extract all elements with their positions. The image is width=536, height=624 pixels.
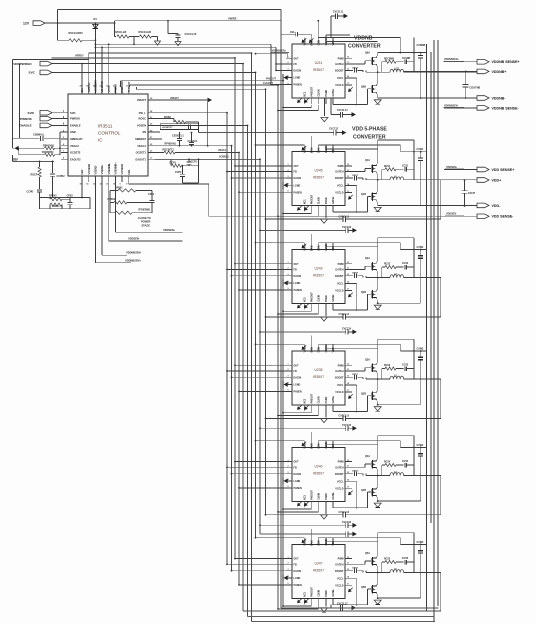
wire ground row xyxy=(377,202,379,206)
svg-text:ENABLE: ENABLE xyxy=(70,124,81,128)
pin U211 top-left arrow xyxy=(302,38,306,42)
pin U243 top CSIN xyxy=(317,243,319,250)
wire EAIN drop phase 5 xyxy=(310,529,312,538)
wire to IC VDAC pin xyxy=(60,147,68,149)
wire bus PWROKV horizontal xyxy=(89,52,252,54)
wire right return phase1 xyxy=(440,180,442,219)
svg-text:DACIN: DACIN xyxy=(294,177,302,180)
svg-text:VCCL: VCCL xyxy=(337,480,344,483)
svg-text:PWROK: PWROK xyxy=(20,117,33,121)
pin bottom FB2 xyxy=(81,176,83,182)
op-amp U1 IR3511 control IC xyxy=(68,94,148,176)
wire output to rail xyxy=(404,475,441,477)
wire pin4 feed xyxy=(326,444,378,446)
svg-text:VDDNBSEN-: VDDNBSEN- xyxy=(126,251,142,255)
pin U235 top-left arrow xyxy=(302,345,306,349)
pin bottom VOSEN2 xyxy=(88,176,90,182)
wire output line xyxy=(366,179,390,181)
wire QB drain xyxy=(377,83,379,85)
svg-text:1: 1 xyxy=(288,460,289,462)
pin U243 bottom GATEL xyxy=(332,303,334,309)
svg-text:17: 17 xyxy=(347,289,349,291)
wire EAIN drop phase 2 xyxy=(310,234,312,243)
svg-text:IR3507: IR3507 xyxy=(313,471,324,475)
svg-text:FB: FB xyxy=(294,563,297,566)
svg-text:Q5A: Q5A xyxy=(365,552,370,555)
svg-text:LGND: LGND xyxy=(294,282,301,285)
bus taps VDDNB xyxy=(256,53,288,55)
svg-text:CLKIN: CLKIN xyxy=(326,38,328,45)
wire rail VIN vertical xyxy=(437,40,439,606)
pin U247 top-left arrow xyxy=(302,539,306,543)
wire output to rail xyxy=(404,378,441,380)
connector VDD SENSE+ xyxy=(444,169,477,171)
wire SVC xyxy=(52,71,256,73)
pin top VCCLDRV xyxy=(94,87,96,94)
svg-text:CLKIN: CLKIN xyxy=(318,295,320,302)
wire ENABLE to IC pin 3 xyxy=(52,124,68,126)
pin U245 bottom-left arrow xyxy=(298,206,302,210)
wire GATEH to QA gate xyxy=(352,370,365,372)
pin U247 top CSIN xyxy=(317,538,319,545)
svg-text:U211: U211 xyxy=(315,61,323,65)
arrow U235 LGND sense xyxy=(284,382,288,387)
arrow CVCCL17 flag xyxy=(352,605,357,610)
wire pin VCCL up xyxy=(108,44,110,87)
svg-text:IR3507: IR3507 xyxy=(313,568,324,572)
svg-text:CVCC15: CVCC15 xyxy=(342,425,352,427)
pin bottom VSENNB+ xyxy=(114,176,116,182)
svg-text:PSI_L: PSI_L xyxy=(139,111,147,115)
svg-text:NC1: NC1 xyxy=(304,91,306,96)
pin U247 top CLKIN xyxy=(325,538,327,545)
wire VDDPWRGD to pin GIA xyxy=(81,64,83,87)
arrow CVCC13 supply flag xyxy=(352,228,357,233)
svg-text:VDD SENSE-: VDD SENSE- xyxy=(492,215,515,219)
svg-text:CLKIN: CLKIN xyxy=(326,345,328,352)
wire input cap drop xyxy=(413,238,415,278)
svg-text:VOSEN1: VOSEN1 xyxy=(120,163,124,174)
arrow current sense left xyxy=(15,146,19,151)
pin U245 top-left arrow xyxy=(302,146,306,150)
wire bus 44 xyxy=(95,43,271,45)
wire bus VDAC vertical xyxy=(231,146,233,571)
svg-text:CBST: CBST xyxy=(352,273,359,275)
svg-text:Q1B: Q1B xyxy=(361,193,366,196)
connector VDDNB SENSE- xyxy=(444,107,477,109)
pin U235 bottom arrow 2 xyxy=(305,405,309,409)
svg-text:IR3507: IR3507 xyxy=(313,375,324,379)
svg-text:IR3507: IR3507 xyxy=(313,176,324,180)
wire sense line to VDD SENSE- xyxy=(209,215,477,217)
svg-text:CVCCL1F: CVCCL1F xyxy=(185,32,197,36)
wire VDAC1 net xyxy=(155,145,232,147)
svg-text:GIA: GIA xyxy=(80,88,84,93)
wire top feed phase 2 xyxy=(256,242,305,244)
ground arrow below QB xyxy=(374,207,381,211)
wire VCCL right pin down xyxy=(352,282,357,284)
wire pin4 feed xyxy=(326,541,378,543)
wire 12V to boundary xyxy=(115,20,281,22)
wire output to VDD+ rail xyxy=(404,179,477,181)
svg-text:OCSET2: OCSET2 xyxy=(70,151,81,155)
pin U235 bottom PGND xyxy=(325,405,327,411)
wire ground row xyxy=(377,594,379,598)
svg-text:CCS4: CCS4 xyxy=(402,460,409,463)
pin U235 top CLKIN xyxy=(325,344,327,351)
svg-text:OUT: OUT xyxy=(294,263,300,266)
svg-text:DACIN: DACIN xyxy=(294,70,302,73)
svg-text:VDDNBSEN+: VDDNBSEN+ xyxy=(125,258,142,262)
wire phase node xyxy=(377,66,379,85)
wire VDDNB ground to connector xyxy=(377,94,379,98)
svg-text:IC: IC xyxy=(98,138,103,143)
ground arrow U247 xyxy=(321,608,328,612)
svg-text:U243: U243 xyxy=(314,266,322,270)
svg-text:CBST: CBST xyxy=(352,568,359,570)
pin bottom VOSEN1 xyxy=(121,176,123,182)
svg-text:5: 5 xyxy=(288,83,289,85)
pin U240 right-bottom arrow xyxy=(349,491,353,495)
svg-text:RPHSVN1: RPHSVN1 xyxy=(165,143,177,146)
wire GATEH to QA gate xyxy=(352,171,365,173)
wire bus VDDPWRGD vertical xyxy=(242,64,244,611)
svg-text:LGND: LGND xyxy=(294,184,301,187)
connector VDD SENSE- xyxy=(477,214,489,219)
wire VDDPWRGD xyxy=(52,63,243,65)
pin U245 bottom PHSOUT xyxy=(310,206,312,212)
op-amp U235 IR3507 phase IC xyxy=(292,351,345,405)
pin U240 bottom CLKIN xyxy=(317,501,319,507)
svg-text:2: 2 xyxy=(288,170,289,172)
wire PGND drop U245 xyxy=(325,212,327,219)
svg-text:GATEL: GATEL xyxy=(332,294,335,302)
wire drain feed mid xyxy=(318,537,400,539)
wire QB drain xyxy=(377,390,379,392)
svg-text:BOOST: BOOST xyxy=(335,376,344,379)
pin bottom VSENNB- xyxy=(108,176,110,182)
pin U240 bottom-left arrow xyxy=(298,502,302,506)
pin U247 bottom CLKIN xyxy=(317,598,319,604)
svg-text:Q3A: Q3A xyxy=(365,358,370,361)
svg-text:CVIN4: CVIN4 xyxy=(417,444,424,447)
pin U247 bottom NC1 xyxy=(303,598,305,604)
svg-text:GATEL: GATEL xyxy=(332,589,335,597)
svg-text:VSENNB-: VSENNB- xyxy=(107,163,111,175)
wire ground row xyxy=(377,94,379,98)
svg-text:VDD 5-PHASE: VDD 5-PHASE xyxy=(352,127,387,133)
svg-text:NC1: NC1 xyxy=(304,398,306,403)
pin U240 top CLKIN xyxy=(325,441,327,448)
pin U240 top-left arrow xyxy=(302,442,306,446)
svg-text:CVCCL15: CVCCL15 xyxy=(339,416,350,418)
wire IIN net xyxy=(155,131,160,133)
wire drain feed mid xyxy=(318,36,400,38)
svg-text:PHSOUT: PHSOUT xyxy=(311,587,313,597)
svg-text:RVSETPT: RVSETPT xyxy=(163,127,174,129)
wire input cap drop xyxy=(413,140,415,180)
svg-text:RVCCLDRV: RVCCLDRV xyxy=(69,31,84,35)
bus taps phase 4 xyxy=(235,461,286,463)
op-amp U245 IR3507 phase IC xyxy=(292,152,345,206)
pin U243 bottom PGND xyxy=(325,303,327,309)
svg-text:CCPD2: CCPD2 xyxy=(57,175,66,178)
svg-text:CVCCL11: CVCCL11 xyxy=(333,11,344,13)
svg-text:OUT: OUT xyxy=(294,461,300,464)
wire PGND drop U235 xyxy=(325,411,327,418)
wire VDD+ output from phase1 xyxy=(404,179,477,181)
svg-text:Q2B: Q2B xyxy=(361,291,366,294)
wire top-left box xyxy=(12,59,88,61)
pin top WPROK xyxy=(88,87,90,94)
pin U245 top VCC xyxy=(332,145,334,152)
wire PHSOUT chain phase 4 xyxy=(310,507,312,509)
svg-text:VDDSEN-: VDDSEN- xyxy=(446,213,457,216)
svg-text:VCCL: VCCL xyxy=(337,384,344,387)
svg-text:OUT: OUT xyxy=(294,57,300,60)
svg-text:CVCCL16: CVCCL16 xyxy=(339,512,350,514)
svg-text:17: 17 xyxy=(347,584,349,586)
pin U211 top CSIN xyxy=(317,37,319,44)
wire PSI_L net xyxy=(155,112,227,114)
wire VDD- from phase1 ground xyxy=(378,204,477,206)
wire U211 pin4 feed from right xyxy=(326,34,350,36)
wire pin VR GATE up xyxy=(101,47,103,87)
svg-text:FB1: FB1 xyxy=(127,169,131,174)
svg-text:NC1: NC1 xyxy=(304,297,306,302)
svg-text:BOOST: BOOST xyxy=(335,570,344,573)
svg-text:CSIN: CSIN xyxy=(318,245,320,251)
svg-text:17: 17 xyxy=(347,390,349,392)
svg-text:LGND: LGND xyxy=(294,577,301,580)
svg-text:PHSEN: PHSEN xyxy=(294,84,303,87)
wire EAIN drop phase 3 xyxy=(310,335,312,344)
ground arrow U235 PGND xyxy=(321,418,328,422)
svg-text:CVCC14: CVCC14 xyxy=(342,328,352,331)
wire output to rail xyxy=(404,277,441,279)
svg-text:DACIN: DACIN xyxy=(294,376,302,379)
wire bus OCSET vertical xyxy=(238,153,240,585)
svg-text:OUT: OUT xyxy=(294,165,300,168)
wire QB gate route xyxy=(368,88,372,90)
svg-text:VSEN2+: VSEN2+ xyxy=(100,164,104,175)
wire EAIN drop phase 1 xyxy=(310,136,312,145)
svg-text:PHSOUT: PHSOUT xyxy=(311,194,313,204)
svg-text:ENABLE: ENABLE xyxy=(19,124,32,128)
svg-text:SVD: SVD xyxy=(70,111,75,115)
svg-text:CBST: CBST xyxy=(352,175,359,177)
svg-text:VDDNBSEN+: VDDNBSEN+ xyxy=(272,50,287,52)
svg-text:CBST: CBST xyxy=(352,471,359,473)
svg-text:PWM: PWM xyxy=(338,364,344,367)
pin U243 bottom arrow 2 xyxy=(305,304,309,308)
wire output line xyxy=(366,378,390,380)
wire drain feed mid xyxy=(318,242,400,244)
svg-text:DACIN: DACIN xyxy=(294,275,302,278)
svg-text:VDAC2: VDAC2 xyxy=(70,144,79,148)
svg-text:STAGE: STAGE xyxy=(142,224,151,227)
pin U235 bottom GATEL xyxy=(332,405,334,411)
pin U245 top CSIN xyxy=(317,145,319,152)
wire bottom bus row 3 xyxy=(252,621,436,623)
svg-text:OUT: OUT xyxy=(294,558,300,561)
pin U240 top CSIN xyxy=(317,441,319,448)
pin U245 top CLKIN xyxy=(325,145,327,152)
svg-text:PHSEN: PHSEN xyxy=(294,391,303,394)
svg-text:BOOST: BOOST xyxy=(335,275,344,278)
svg-text:VRHOT: VRHOT xyxy=(170,97,179,100)
svg-text:GATEH: GATEH xyxy=(335,370,343,373)
pin U247 bottom-left arrow xyxy=(298,599,302,603)
wire VDAC gray long xyxy=(198,130,200,133)
svg-text:EAIN: EAIN xyxy=(310,443,313,449)
svg-text:13: 13 xyxy=(347,376,349,378)
wire bus CLKOUT vertical xyxy=(277,85,279,609)
svg-text:CSIN: CSIN xyxy=(318,147,320,153)
pin U243 top VCCL xyxy=(303,243,305,250)
pin U240 bottom PHSOUT xyxy=(310,501,312,507)
svg-text:11: 11 xyxy=(347,170,349,172)
pin U247 bottom PGND xyxy=(325,598,327,604)
wire QB drain xyxy=(377,487,379,489)
svg-text:1: 1 xyxy=(288,557,289,559)
wire right return phase5 xyxy=(440,573,442,612)
svg-text:PHSEN: PHSEN xyxy=(294,487,303,490)
svg-text:LGND: LGND xyxy=(294,77,301,80)
arrow VRHOT flag xyxy=(208,98,213,103)
svg-text:RVCCLHF: RVCCLHF xyxy=(114,30,127,34)
svg-text:VDDNB: VDDNB xyxy=(354,36,373,42)
wire input cap drop xyxy=(413,339,415,379)
svg-text:VOSEN2: VOSEN2 xyxy=(87,163,91,174)
pin U235 bottom-left arrow xyxy=(298,405,302,409)
svg-text:PWROK: PWROK xyxy=(70,117,80,121)
pin U240 top VCC xyxy=(332,441,334,448)
svg-text:IR3507: IR3507 xyxy=(313,68,324,72)
wire PHSOUT chain phase 2 xyxy=(310,309,312,311)
bus taps phase 3 xyxy=(235,364,286,366)
svg-text:12: 12 xyxy=(347,164,349,166)
pin U240 bottom arrow 2 xyxy=(305,502,309,506)
wire rail 2 vertical xyxy=(430,52,432,523)
svg-text:CLKIN: CLKIN xyxy=(326,538,328,545)
wire top feed phase 1 xyxy=(256,144,305,146)
svg-text:PWM: PWM xyxy=(338,461,344,464)
pin U245 bottom arrow 2 xyxy=(305,206,309,210)
pin U247 bottom GATEL xyxy=(332,598,334,604)
svg-text:PHSOUT: PHSOUT xyxy=(311,490,313,500)
svg-text:NC1: NC1 xyxy=(304,199,306,204)
feedback network A wires xyxy=(40,197,90,199)
wire bottom bus row 2 xyxy=(248,616,435,618)
svg-text:13: 13 xyxy=(347,569,349,571)
pin U235 top CSIN xyxy=(317,344,319,351)
svg-text:Q4A: Q4A xyxy=(365,455,370,458)
svg-text:3: 3 xyxy=(288,472,289,474)
bus taps phase 5 xyxy=(235,558,286,560)
wire QB gate route xyxy=(368,588,372,590)
svg-text:PGND: PGND xyxy=(326,197,328,204)
ground arrow below QB xyxy=(374,100,381,104)
svg-text:2: 2 xyxy=(288,268,289,270)
ground arrow below QB xyxy=(374,503,381,507)
pin U211 top EAIN xyxy=(310,37,312,44)
svg-text:NC1: NC1 xyxy=(304,591,306,596)
svg-text:3: 3 xyxy=(288,274,289,276)
wire phase node xyxy=(377,469,379,488)
svg-text:13: 13 xyxy=(347,274,349,276)
pin U245 top EAIN xyxy=(310,145,312,152)
svg-text:VDAC1: VDAC1 xyxy=(137,144,146,148)
pin U240 bottom GATEL xyxy=(332,501,334,507)
svg-text:RTHERM1: RTHERM1 xyxy=(139,209,151,212)
svg-text:NC1: NC1 xyxy=(304,494,306,499)
svg-text:CSBMALL: CSBMALL xyxy=(33,133,45,136)
pin U211 bottom CLKIN xyxy=(317,98,319,104)
svg-text:BOOST: BOOST xyxy=(335,177,344,180)
wire bus PWROKV vertical xyxy=(251,53,253,621)
svg-text:GND: GND xyxy=(70,130,76,134)
svg-text:VDDNBSEN+: VDDNBSEN+ xyxy=(444,58,459,61)
wire input cap drop xyxy=(413,37,415,72)
wire IIN gray xyxy=(12,160,54,162)
wire NB PGND drop xyxy=(323,98,325,116)
svg-text:2: 2 xyxy=(288,369,289,371)
wire QB gate route xyxy=(368,395,372,397)
wire VCCLDRV down to IC pin xyxy=(94,40,96,87)
svg-text:2: 2 xyxy=(288,466,289,468)
svg-text:DACIN: DACIN xyxy=(294,570,302,573)
wire U247 PGND drop xyxy=(325,604,327,606)
svg-text:CLKIN: CLKIN xyxy=(318,589,320,596)
svg-text:FB: FB xyxy=(294,269,297,272)
svg-text:12: 12 xyxy=(347,363,349,365)
svg-text:PWM: PWM xyxy=(338,263,344,266)
svg-text:U247: U247 xyxy=(314,561,322,565)
wire ground row xyxy=(377,497,379,501)
svg-text:PHSEN: PHSEN xyxy=(294,584,303,587)
svg-text:5: 5 xyxy=(288,190,289,192)
svg-text:VDDNB SENSE-: VDDNB SENSE- xyxy=(492,106,520,110)
svg-text:FB: FB xyxy=(294,466,297,469)
pin U245 bottom PGND xyxy=(325,206,327,212)
svg-text:RVCCLHD: RVCCLHD xyxy=(139,30,152,34)
wire VCCL gray drop xyxy=(207,100,209,146)
wire ground row xyxy=(377,299,379,303)
svg-text:11: 11 xyxy=(347,62,349,64)
pin U245 top VCCL xyxy=(303,145,305,152)
arrow U245 LGND sense xyxy=(284,183,288,188)
pin U243 bottom CLKIN xyxy=(317,303,319,309)
wire bus SVC vertical xyxy=(255,72,257,537)
svg-text:CVCCL13: CVCCL13 xyxy=(339,216,350,218)
svg-text:CLKIN: CLKIN xyxy=(326,146,328,153)
wire bus PHSIN vertical xyxy=(265,89,267,515)
wire top feed phase 3 xyxy=(256,343,305,345)
pin U235 bottom CLKIN xyxy=(317,405,319,411)
pin top CLKOUT xyxy=(128,87,130,94)
svg-text:CBST: CBST xyxy=(352,67,359,69)
wire NB top feed xyxy=(270,44,272,84)
svg-text:PHSOUT: PHSOUT xyxy=(311,292,313,302)
wire output line xyxy=(366,277,390,279)
svg-text:VCCL: VCCL xyxy=(337,283,344,286)
wire CLKIN chain phase 2 xyxy=(317,309,319,314)
svg-text:CBST: CBST xyxy=(352,374,359,376)
wire VDDNB output extension xyxy=(404,70,477,72)
wire QB gate route xyxy=(368,195,372,197)
svg-text:CVCC13: CVCC13 xyxy=(342,227,352,229)
